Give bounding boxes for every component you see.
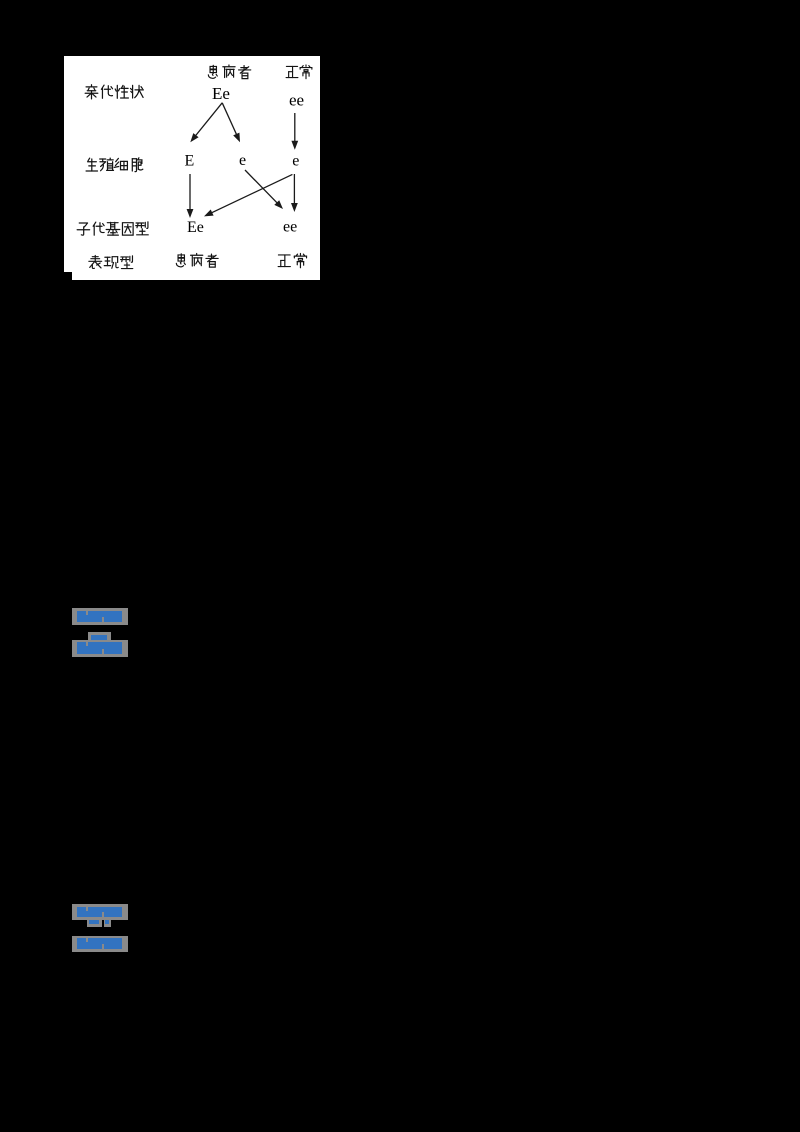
svg-text:E: E (185, 153, 195, 170)
arrow right e down to ee (293, 174, 295, 207)
analysis tag block 2 【解析】 (72, 640, 128, 657)
arrow ee down to e (294, 113, 296, 144)
svg-text:ee: ee (289, 91, 304, 110)
svg-text:e: e (239, 152, 246, 169)
block 3 hanging tab b (104, 920, 111, 927)
block 2 continuation tab (88, 632, 111, 640)
svg-text:Ee: Ee (187, 219, 204, 236)
arrow middle e to ee (diagonal) (245, 170, 279, 205)
svg-text:Ee: Ee (212, 84, 230, 103)
arrow E down to Ee (189, 174, 191, 213)
answer tag block 1 【答案】 (72, 608, 128, 625)
row label 子代基因型 (77, 222, 148, 235)
row label 表现型 (89, 256, 133, 269)
row label 亲代性状 (85, 85, 143, 99)
white diagram panel (64, 56, 320, 280)
arrow Ee to E (194, 103, 223, 138)
row label 生殖细胞 (86, 158, 143, 172)
genetics cross diagram panel (64, 56, 320, 280)
answer tag block 3 【答案】 (72, 904, 128, 920)
block 3 hanging tab a (87, 920, 102, 927)
label 正常 (bottom) (278, 254, 306, 268)
label 患病者 (bottom) (176, 254, 218, 268)
label 正常 (top) (286, 65, 312, 79)
analysis tag block 4 【解析】 (72, 936, 128, 952)
svg-text:ee: ee (283, 219, 297, 236)
svg-text:e: e (292, 153, 299, 170)
arrow right e to Ee (diagonal) (209, 174, 293, 214)
arrow Ee to e (222, 103, 238, 138)
black notch bottom-left of panel (64, 272, 72, 280)
label 患病者 (top) (208, 65, 250, 79)
